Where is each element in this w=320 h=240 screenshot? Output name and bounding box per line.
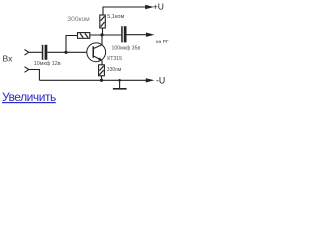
svg-text:+U: +U: [153, 2, 164, 12]
ground: [113, 80, 127, 89]
resistor R1 5,1ком: [100, 15, 106, 28]
svg-text:10мкф 12в: 10мкф 12в: [34, 61, 61, 67]
input terminal upper: [25, 50, 29, 56]
wire R1 bottom to collector node: [102, 28, 104, 35]
wire C2 to output arrow: [127, 34, 147, 36]
wire R2 left to base junction: [66, 36, 78, 53]
node base junction dot: [64, 51, 67, 54]
transistor Q1 КТ315: [87, 43, 106, 62]
svg-text:Увеличить: Увеличить: [2, 90, 56, 104]
wire lower terminal to bottom rail: [29, 70, 40, 81]
svg-text:на РГ: на РГ: [156, 39, 169, 45]
svg-text:100мкф 35в: 100мкф 35в: [112, 46, 141, 52]
wire R3 bottom to rail: [101, 76, 103, 81]
node emitter-rail junction dot: [100, 79, 103, 82]
-U supply arrow: [146, 78, 155, 82]
svg-text:Вх: Вх: [3, 54, 14, 64]
wire R2 right to collector node: [90, 34, 122, 36]
svg-text:300ком: 300ком: [68, 16, 91, 23]
wire top rail from R1 top to +U arrow: [103, 7, 146, 15]
output arrow to на РГ: [146, 33, 154, 37]
capacitor C2 100мкф 35в: [121, 26, 126, 42]
input terminal lower: [25, 67, 29, 73]
wire emitter to R3: [101, 60, 103, 65]
resistor R2 300ком feedback: [78, 33, 90, 39]
wire collector vertical: [101, 35, 103, 45]
wire terminal to C1: [29, 51, 42, 53]
resistor R3 330ом: [99, 65, 105, 76]
wire bottom rail: [39, 79, 146, 81]
svg-text:5,1ком: 5,1ком: [107, 14, 124, 20]
node ground junction dot: [118, 79, 121, 82]
node collector junction dot: [100, 33, 103, 36]
capacitor C1 10мкф 12в: [42, 45, 48, 60]
svg-text:-U: -U: [156, 76, 165, 86]
wire base from C1 to Q1: [47, 51, 86, 53]
svg-text:КТ315: КТ315: [107, 56, 122, 62]
svg-text:330ом: 330ом: [107, 67, 122, 73]
+U supply arrow: [145, 5, 154, 9]
